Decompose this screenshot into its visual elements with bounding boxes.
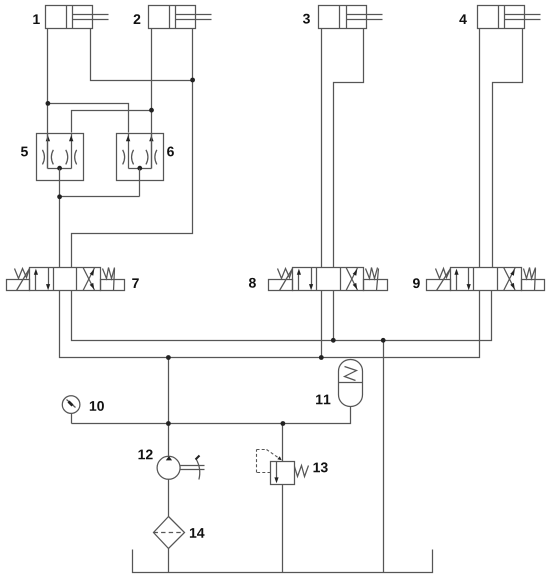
filter 14 [154, 517, 185, 549]
label 7 [132, 278, 139, 288]
wire cyl1 cap-end to valve 5 left throttle [47, 29, 49, 169]
wire cyl4 rod-end to valve 9 port B [493, 29, 523, 268]
label 4 [459, 14, 466, 24]
accumulator 11 [339, 360, 363, 407]
label 8 [249, 278, 256, 288]
label 5 [21, 147, 28, 157]
label 1 [33, 14, 40, 24]
junction relief valve on gauge line [281, 421, 286, 426]
wire gauge line to accumulator [72, 407, 351, 424]
junction valve 8 on return bus [331, 338, 336, 343]
wire cyl4 cap-end to valve 9 port A [479, 29, 481, 268]
wire valve 7 to return bus [72, 291, 492, 341]
junction pump on pressure bus [166, 355, 171, 360]
valve 9 left solenoid [427, 269, 451, 291]
label 10 [90, 401, 97, 411]
wire joining flow valve outlets [60, 196, 140, 198]
directional valve 9 body [451, 268, 522, 291]
valve 9 right spring [524, 268, 536, 279]
wire bus drain to tank [383, 341, 385, 573]
cylinder 2 [149, 6, 212, 29]
junction valve 8 on pressure bus [319, 355, 324, 360]
valve 9 parallel-flow arrows [454, 268, 470, 291]
pressure gauge 10 [62, 396, 80, 414]
valve 8 right solenoid [364, 269, 388, 291]
valve 7 crossed-flow arrows [83, 268, 95, 291]
valve 8 right spring [366, 268, 378, 279]
valve 7 parallel-flow arrows [34, 268, 50, 291]
wire valve 6 outlet [139, 169, 141, 197]
junction dot inside valve 6 [137, 166, 142, 171]
valve 9 left spring [436, 269, 451, 279]
junction flow valve outlets [57, 194, 62, 199]
wire branch to valve 5 right throttle [72, 111, 152, 133]
junction rod ends [190, 78, 195, 83]
tank [133, 550, 433, 573]
label 3 [303, 14, 310, 24]
wire gauge stem [71, 414, 73, 424]
valve 8 left spring [278, 269, 293, 279]
valve 7 left solenoid [7, 269, 30, 291]
label 6 [167, 147, 174, 157]
valve 8 crossed-flow arrows [346, 268, 358, 291]
wire to relief valve inlet [282, 424, 284, 462]
label 11 [316, 395, 323, 405]
label 12 [138, 450, 145, 460]
wire filter to tank [168, 549, 170, 573]
label 2 [134, 14, 141, 24]
pump 12 [157, 456, 204, 480]
valve 7 right spring [103, 268, 115, 279]
relief valve 13 pilot line [257, 450, 282, 473]
wire cyl3 rod-end to valve 8 port B [334, 29, 364, 268]
valve 7 right solenoid [101, 269, 125, 291]
wire valve 7 to pressure bus [60, 291, 480, 358]
valve 9 right solenoid [522, 269, 545, 291]
wire relief valve drain to tank [282, 485, 284, 573]
valve 9 crossed-flow arrows [504, 268, 516, 291]
relief valve 13 spring [295, 466, 309, 477]
junction cyl2 cap branch [149, 108, 154, 113]
directional valve 8 body [293, 268, 364, 291]
label 13 [313, 463, 320, 473]
junction pump riser on gauge line [166, 421, 171, 426]
valve 7 left spring [15, 269, 30, 279]
wire branch to valve 6 left throttle [48, 104, 129, 133]
label 9 [413, 278, 420, 288]
wire valve 8 port P to bus [321, 291, 323, 358]
wire pump riser [168, 358, 170, 457]
wire valve 8 port T to bus [333, 291, 335, 341]
flow control valve 5 [37, 134, 84, 181]
wire cyl1 rod-end [91, 29, 193, 81]
junction cyl1 cap branch [46, 101, 51, 106]
junction dot inside valve 5 [57, 166, 62, 171]
wire valve 5 outlet to valve 7 port A [59, 169, 61, 268]
flow control valve 6 [117, 134, 164, 181]
wire pump to filter [168, 480, 170, 517]
relief valve 13 [271, 462, 295, 485]
valve 8 parallel-flow arrows [297, 268, 313, 291]
label 14 [190, 528, 197, 538]
junction tank drain on return bus [381, 338, 386, 343]
valve 8 left solenoid [269, 269, 293, 291]
cylinder 1 [46, 6, 109, 29]
cylinder 4 [478, 6, 541, 29]
directional valve 7 body [30, 268, 101, 291]
wire cyl2 cap-end to valve 6 right throttle [151, 29, 153, 169]
wire cyl2 rod-end to valve 7 port B [72, 29, 193, 268]
wire cyl3 cap-end to valve 8 port A [321, 29, 323, 268]
cylinder 3 [319, 6, 383, 29]
